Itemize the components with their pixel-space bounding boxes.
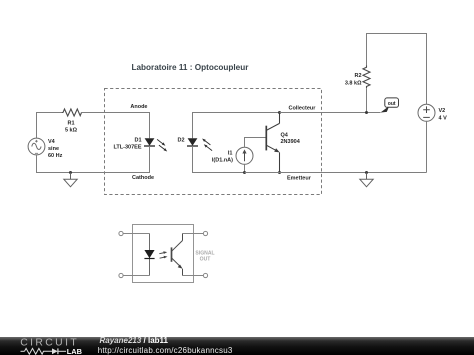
svg-text:LTL-307EE: LTL-307EE (113, 144, 141, 150)
current source I1 (236, 147, 253, 164)
svg-text:3.8 kΩ: 3.8 kΩ (345, 81, 362, 87)
node junction emitter (278, 171, 281, 174)
svg-text:2N3904: 2N3904 (281, 139, 301, 145)
svg-text:LAB: LAB (67, 347, 82, 355)
footer bar (0, 337, 474, 355)
value label V4 sine 60 Hz (48, 139, 63, 159)
ground symbol left (64, 173, 77, 187)
svg-text:D2: D2 (177, 137, 184, 143)
svg-text:Laboratoire 11 : Optocoupleur: Laboratoire 11 : Optocoupleur (132, 63, 250, 72)
svg-text:OUT: OUT (200, 257, 212, 263)
svg-text:4 V: 4 V (439, 115, 448, 121)
transistor Q4 (266, 113, 279, 173)
node junction at left ground (69, 171, 72, 174)
svg-text:R2: R2 (354, 73, 361, 79)
wire D2 anode from top rail to collector rail (193, 113, 280, 139)
logo resistor zigzag (25, 348, 53, 354)
svg-text:V4: V4 (48, 139, 56, 145)
dashed optocoupler boundary box (105, 89, 322, 195)
svg-text:V2: V2 (439, 108, 446, 114)
pin collector (inset) (183, 231, 208, 235)
light arrows inside package (inset) (159, 251, 167, 258)
text label SIGNAL OUT (inset) (195, 251, 214, 263)
wire emitter rail to V2 (245, 172, 427, 174)
resistor R2 (363, 66, 370, 89)
svg-text:R1: R1 (67, 121, 74, 127)
optocoupler package outline (inset diagram) (133, 225, 194, 283)
LED inside package (inset) (144, 234, 154, 276)
svg-text:5 kΩ: 5 kΩ (65, 128, 78, 134)
node junction collector (278, 111, 281, 114)
svg-text:I1: I1 (228, 150, 233, 156)
pin emitter (inset) (183, 273, 208, 277)
light receiving arrows of D2 (202, 139, 212, 151)
voltage source V4 (28, 138, 45, 155)
wire R1 to D1 anode (81, 113, 150, 139)
svg-text:Collecteur: Collecteur (289, 106, 317, 112)
logo diode (52, 348, 58, 354)
wire I1 top to Q4 base (245, 138, 266, 148)
svg-text:Emetteur: Emetteur (287, 176, 312, 182)
flag pointer for out (381, 106, 390, 113)
pin anode (inset) (119, 231, 150, 235)
LED D1 (144, 138, 167, 151)
resistor R1 (62, 109, 82, 116)
node junction I1 bottom (243, 171, 246, 174)
svg-text:Rayane213 / lab11: Rayane213 / lab11 (100, 337, 169, 345)
net flag out (385, 98, 399, 107)
wire D1 cathode bottom rail back to V4 (37, 146, 150, 173)
wire V2 bottom to rail (426, 121, 428, 172)
logo wire lead-in (21, 350, 25, 352)
svg-text:sine: sine (48, 146, 59, 152)
phototransistor inside package (inset) (172, 234, 183, 276)
wire top rail R2 to V2 (367, 34, 427, 105)
svg-text:Q4: Q4 (281, 133, 289, 139)
svg-text:Cathode: Cathode (132, 175, 154, 181)
svg-text:D1: D1 (134, 137, 141, 143)
ground symbol right (360, 173, 373, 187)
wire V4 top to R1 (37, 113, 63, 139)
light emission arrows of D1 (157, 139, 167, 151)
svg-text:60 Hz: 60 Hz (48, 153, 63, 159)
wire R2 bottom to out node (366, 88, 368, 112)
svg-text:out: out (388, 101, 396, 107)
svg-text:Anode: Anode (130, 104, 147, 110)
node junction out (365, 111, 368, 114)
voltage source V2 (418, 104, 435, 121)
node junction right ground (365, 171, 368, 174)
wire I1 bottom to rail (244, 164, 246, 172)
svg-text:http://circuitlab.com/c26bukan: http://circuitlab.com/c26bukanncsu3 (98, 345, 233, 354)
LED D2 photodiode (187, 138, 212, 150)
pin cathode (inset) (119, 273, 150, 277)
wire collector rail to out node (280, 112, 381, 114)
wire D2 cathode to bottom rail (193, 146, 245, 173)
svg-text:I(D1.nA): I(D1.nA) (212, 157, 233, 163)
